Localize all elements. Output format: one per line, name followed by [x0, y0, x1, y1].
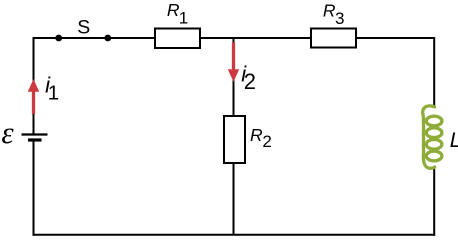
- switch S dot right: [104, 35, 111, 42]
- wire bottom horizontal: [33, 234, 436, 236]
- inductor L coil: [423, 106, 442, 168]
- wire right vertical (inductor branch): [433, 37, 435, 236]
- svg-text:1: 1: [179, 8, 188, 27]
- svg-text:2: 2: [262, 132, 271, 151]
- svg-text:1: 1: [48, 82, 59, 105]
- switch S dot left: [55, 35, 62, 42]
- resistor R1: [155, 29, 200, 49]
- svg-text:3: 3: [335, 9, 344, 28]
- svg-text:R: R: [323, 0, 336, 20]
- current arrow i2: [228, 42, 239, 82]
- svg-text:S: S: [77, 17, 90, 39]
- svg-text:ε: ε: [1, 115, 14, 150]
- wire left vertical (battery branch): [33, 37, 35, 236]
- resistor R2: [224, 116, 245, 163]
- current arrow i1: [28, 79, 39, 114]
- wire middle branch: [233, 38, 235, 235]
- resistor R3: [311, 29, 356, 48]
- svg-text:2: 2: [244, 69, 256, 94]
- svg-text:L: L: [450, 129, 458, 152]
- wire top horizontal: [34, 37, 435, 39]
- svg-text:R: R: [250, 125, 263, 145]
- battery EMF source: [22, 135, 48, 141]
